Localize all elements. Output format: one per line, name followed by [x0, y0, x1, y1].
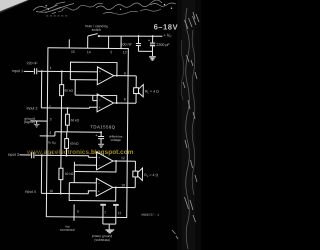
svg-text:3: 3 [50, 117, 52, 121]
svg-text:2200 µF: 2200 µF [156, 43, 170, 47]
op-amp U1b inverting input wire [93, 95, 97, 100]
resistor column B lower (R3) [66, 132, 68, 156]
capacitor C3 plates [136, 44, 141, 46]
op-amp U1a triangle [97, 67, 114, 85]
svg-text:12: 12 [121, 156, 125, 160]
wire joining pins 7 and 11 [103, 224, 116, 230]
svg-text:60 kΩ: 60 kΩ [65, 172, 74, 176]
half Vp rail [55, 131, 101, 133]
loudspeaker LS1 box [134, 88, 139, 94]
svg-text:10: 10 [121, 183, 125, 187]
op-amp U1c inverting input wire [74, 164, 96, 166]
junction dots [40, 34, 154, 195]
resistor R2 60k body [65, 114, 69, 125]
resistor column A (R1/R4) [61, 71, 62, 193]
svg-text:17: 17 [50, 151, 54, 155]
input 3 wire to amp [35, 155, 97, 157]
svg-text:7: 7 [104, 211, 106, 215]
power ground symbol [105, 230, 114, 233]
wire tying U1c and U1d inverting inputs [73, 162, 75, 183]
op-amp U1d triangle [96, 178, 113, 196]
svg-text:input 3: input 3 [8, 153, 19, 157]
svg-text:60 kΩ: 60 kΩ [65, 89, 74, 93]
svg-text:+: + [99, 70, 101, 74]
op-amp U1c triangle [96, 152, 113, 170]
input 2 wire [41, 107, 97, 109]
page corner top-left [0, 0, 28, 11]
capacitor C1 220nF plates [34, 68, 36, 74]
right page-edge band underlay [177, 0, 201, 250]
pin 15 wire [68, 39, 70, 48]
pin 5 wire [108, 36, 110, 48]
op-amp polarity marks [98, 70, 102, 194]
ground under supply capacitors [149, 57, 156, 60]
svg-text:8: 8 [124, 98, 126, 102]
signal ground wire pin 3 [30, 121, 47, 124]
svg-text:2: 2 [49, 105, 51, 109]
wire joining C3 C4 bottoms [138, 51, 152, 56]
capacitor C5 plates [98, 136, 104, 138]
svg-text:16: 16 [49, 189, 53, 193]
svg-text:11: 11 [118, 211, 122, 215]
svg-text:connected: connected [60, 228, 75, 232]
capacitor C4 2200uF leads [152, 36, 154, 51]
svg-text:+: + [98, 156, 100, 160]
svg-text:½ VP: ½ VP [48, 141, 56, 146]
pin 14 wire [87, 36, 89, 48]
pin 9 stub [73, 204, 75, 220]
capacitor C3 100nF leads [137, 36, 139, 51]
wire input1 to input2 drop [40, 71, 42, 108]
svg-text:4: 4 [49, 131, 51, 135]
pin 11 tab wire [115, 206, 117, 224]
svg-text:−: − [99, 98, 101, 102]
svg-text:9: 9 [77, 210, 79, 214]
input 3 wire left [20, 154, 31, 156]
svg-text:60 kΩ: 60 kΩ [71, 118, 80, 122]
op-amp U1d feedback loop [69, 183, 116, 201]
loudspeaker LS2 horn [138, 168, 143, 181]
op-amp U1d inverting input wire [69, 182, 96, 184]
svg-text:−: − [98, 164, 100, 168]
pin 11 tab symbol [113, 204, 119, 206]
op-amp U1c output wire [113, 161, 135, 171]
svg-text:60 kΩ: 60 kΩ [70, 142, 79, 146]
input 4 wire [41, 190, 96, 194]
handwriting scratches top [33, 0, 176, 16]
switch S1 blade [88, 33, 98, 36]
op-amp U1a inverting input wire [70, 79, 97, 81]
pin 7 tab wire [102, 206, 104, 224]
svg-text:13: 13 [123, 50, 127, 54]
svg-text:5: 5 [110, 50, 112, 54]
op-amp U1b triangle [97, 94, 114, 112]
svg-text:voltage: voltage [110, 138, 121, 142]
photo background [0, 0, 201, 250]
svg-text:100 nF: 100 nF [120, 42, 132, 46]
svg-text:6: 6 [124, 71, 126, 75]
wire tying U1a and U1b inverting inputs [74, 80, 76, 95]
resistor R3 60k body [65, 139, 69, 149]
svg-text:−: − [98, 182, 100, 186]
op-amp U1b output wire [114, 93, 136, 103]
supply rail right segment to +Vp [99, 36, 163, 37]
svg-text:input 4: input 4 [25, 190, 36, 194]
svg-text:input 1: input 1 [12, 69, 23, 73]
svg-text:15: 15 [71, 50, 75, 54]
pin number labels [48, 50, 127, 215]
pin 7 tab symbol [100, 204, 106, 206]
capacitor C4 plates [150, 42, 155, 44]
svg-text:(substrate): (substrate) [94, 238, 110, 242]
wire input3 to input4 drop [40, 155, 42, 193]
op-amp U1c feedback loop [74, 161, 116, 172]
resistor R1 60k body [60, 85, 64, 96]
svg-text:+: + [98, 189, 100, 193]
op-amp U1d output wire [113, 177, 136, 188]
op-amp U1a output wire [114, 76, 137, 88]
svg-text:MBB537 - 1: MBB537 - 1 [141, 213, 159, 217]
right page-edge band streaks [181, 8, 195, 249]
svg-text:+ VP: + VP [163, 33, 171, 39]
svg-text:TDA1558Q: TDA1558Q [90, 124, 115, 129]
ground under reference capacitor C5 [98, 144, 104, 147]
op-amp U1b feedback loop [75, 95, 117, 103]
op-amp U1a feedback loop [70, 62, 117, 80]
svg-text:220 nF: 220 nF [27, 61, 38, 65]
svg-text:6–18V: 6–18V [154, 22, 179, 31]
capacitor C2 220nF plates [32, 152, 34, 158]
svg-text:1: 1 [50, 66, 52, 70]
svg-text:input 2: input 2 [26, 106, 37, 110]
svg-text:14: 14 [87, 50, 91, 54]
reference voltage capacitor C5 leads [100, 132, 102, 144]
svg-text:(signal): (signal) [24, 120, 35, 124]
svg-text:−: − [99, 79, 101, 83]
loudspeaker LS2 box [133, 171, 138, 177]
ground signal symbol [34, 124, 40, 127]
svg-text:switch: switch [92, 28, 102, 32]
pin 13 wire [120, 36, 122, 48]
resistor R4 60k body [59, 168, 63, 179]
resistor column B upper (R2) [66, 108, 68, 132]
input 1 wire left [24, 70, 34, 72]
pin 4 wire half Vp [40, 132, 55, 136]
IC box TDA1558Q outline [46, 48, 128, 218]
loudspeaker LS1 horn [138, 84, 143, 96]
svg-text:+: + [99, 106, 101, 110]
input 1 wire to amp [38, 70, 98, 73]
page corner bottom-right [186, 225, 201, 250]
